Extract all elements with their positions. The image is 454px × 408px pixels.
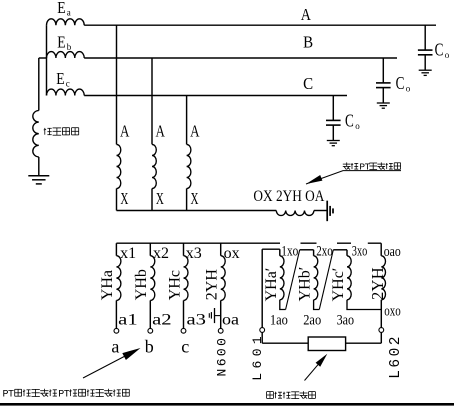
svg-text:X: X	[120, 189, 128, 208]
svg-text:2ao: 2ao	[303, 313, 321, 329]
svg-text:X: X	[156, 189, 164, 208]
wire phase C	[84, 95, 347, 97]
source Eb winding	[47, 52, 85, 58]
wire tap B	[151, 58, 153, 144]
wire winding 1 to X bus	[116, 189, 118, 211]
svg-text:oao: oao	[384, 244, 401, 260]
svg-text:c: c	[66, 79, 70, 89]
svg-text:C: C	[345, 111, 354, 131]
wire winding 2 to X bus	[151, 189, 153, 211]
svg-text:YHc′: YHc′	[330, 268, 347, 302]
wire bottom bus right	[346, 342, 382, 344]
svg-text:E: E	[56, 69, 64, 88]
svg-text:a3: a3	[187, 311, 207, 328]
svg-text:3xo: 3xo	[352, 244, 368, 260]
svg-text:N600: N600	[214, 336, 229, 377]
annotation harmonic device text	[267, 391, 274, 393]
svg-text:YHa′: YHa′	[263, 268, 280, 302]
PT primary winding 1	[117, 144, 121, 188]
wire stub secondary winding 2YH	[220, 243, 222, 256]
wire L601 below circle	[261, 332, 263, 343]
svg-text:PT: PT	[3, 390, 15, 401]
svg-text:YHc: YHc	[166, 270, 183, 300]
svg-text:C: C	[303, 74, 313, 93]
wire to arc-suppression coil	[38, 58, 40, 111]
label 1xo	[280, 240, 301, 256]
svg-text:OX 2YH OA: OX 2YH OA	[253, 188, 325, 205]
winding YHc'	[346, 250, 348, 256]
svg-text:ox: ox	[224, 245, 240, 262]
label 2xo	[317, 240, 338, 256]
PT primary winding 3	[187, 144, 191, 188]
svg-text:A: A	[301, 5, 312, 24]
wire 2YH bottom	[380, 300, 382, 328]
wire phase A	[84, 24, 436, 26]
svg-text:a: a	[111, 337, 119, 357]
source Ea winding	[47, 19, 85, 25]
svg-text:o: o	[355, 121, 360, 131]
wire YHa to terminal	[115, 300, 117, 328]
svg-text:a1: a1	[118, 311, 138, 328]
annotation leader zero-seq	[306, 171, 401, 184]
svg-text:PT: PT	[58, 390, 70, 401]
bottom border	[0, 403, 454, 406]
wire bus corner to oao	[380, 243, 382, 256]
svg-text:C: C	[396, 73, 405, 93]
svg-text:o: o	[406, 84, 411, 94]
svg-text:YHb′: YHb′	[297, 267, 314, 302]
svg-text:A: A	[120, 122, 129, 141]
resistor harmonic suppressor	[308, 337, 345, 351]
svg-text:1ao: 1ao	[270, 313, 288, 329]
svg-text:o: o	[445, 50, 450, 60]
svg-text:E: E	[57, 0, 65, 17]
svg-text:oxo: oxo	[384, 304, 401, 320]
wire diagonal 1ao to 2xo	[286, 250, 300, 310]
junction circle L601	[260, 328, 265, 333]
svg-text:C: C	[435, 40, 444, 60]
secondary winding YHa	[116, 256, 121, 301]
wire below circle L602	[380, 332, 382, 343]
svg-text:x2: x2	[153, 245, 169, 262]
terminal circle a2	[148, 328, 153, 333]
wire tap C	[186, 96, 188, 145]
wire 2YH to ground	[314, 210, 327, 212]
wire bottom bus left	[262, 342, 308, 344]
wire stub 3xo	[333, 249, 347, 251]
wire stub secondary winding YHb	[149, 243, 151, 256]
wire YHb to terminal	[149, 300, 151, 328]
wire YHc' bottom to oxo	[347, 300, 381, 310]
svg-text:YHa: YHa	[99, 270, 116, 300]
svg-text:b: b	[67, 42, 72, 52]
wire diagonal 2ao to 3xo	[319, 250, 333, 310]
label 3xo	[351, 240, 368, 256]
svg-text:E: E	[57, 33, 65, 52]
svg-text:L602: L602	[388, 334, 404, 379]
secondary winding YHc	[184, 256, 189, 301]
svg-text:c: c	[181, 337, 189, 357]
wire X bus primary	[117, 210, 277, 212]
svg-text:A: A	[156, 122, 165, 141]
capacitor C0 phase A	[424, 25, 426, 50]
PT primary winding 2	[152, 144, 156, 188]
svg-text:a: a	[67, 8, 71, 18]
svg-text:2YH: 2YH	[368, 267, 387, 300]
svg-text:a2: a2	[152, 311, 172, 328]
winding YHb'	[313, 250, 315, 256]
ground at oa terminal	[215, 315, 221, 317]
winding YHa'	[279, 249, 281, 256]
svg-text:b: b	[145, 337, 154, 357]
wire stub 1xo	[262, 248, 280, 250]
annotation zero-seq PT label	[343, 163, 351, 165]
arc suppression coil	[33, 111, 39, 157]
wire neutral vertical	[46, 25, 48, 95]
svg-text:2YH: 2YH	[204, 269, 221, 301]
svg-text:YHb: YHb	[133, 269, 150, 300]
svg-text:3ao: 3ao	[337, 313, 355, 329]
svg-text:L601: L601	[250, 332, 265, 381]
svg-text:B: B	[303, 33, 313, 52]
annotation leader harmonic device	[305, 356, 326, 380]
capacitor C0 phase C	[332, 96, 334, 121]
zero-seq PT high-voltage winding 2YH	[276, 211, 314, 216]
wire winding 3 to X bus	[186, 189, 188, 211]
wire YHb' bottom corner	[314, 300, 320, 310]
svg-text:2xo: 2xo	[316, 244, 333, 260]
wire coil to ground	[38, 157, 40, 176]
svg-text:x1: x1	[120, 245, 136, 262]
capacitor C0 phase B	[382, 58, 384, 83]
wire L601 vertical	[261, 249, 263, 328]
wire phase B	[84, 57, 397, 59]
winding 2YH secondary	[381, 256, 385, 300]
wire YHc to terminal	[183, 300, 185, 328]
wire secondary bus	[116, 242, 381, 244]
wire tap A	[116, 25, 118, 144]
wire stub secondary winding YHc	[183, 243, 185, 256]
ground arc coil	[28, 175, 49, 177]
junction circle L602	[379, 328, 384, 333]
wire YHa' bottom corner	[280, 300, 286, 310]
secondary winding YHb	[150, 256, 155, 301]
wire 2YH to terminal	[220, 300, 222, 328]
terminal circle oa	[218, 328, 223, 333]
svg-text:A: A	[190, 122, 199, 141]
ground right rotated	[326, 201, 328, 222]
label arc suppression coil text	[44, 128, 46, 135]
secondary winding 2YH	[221, 256, 226, 301]
wire neutral jog	[39, 57, 47, 59]
source Ec winding	[47, 89, 85, 95]
terminal circle a3	[181, 328, 186, 333]
wire stub 2xo	[300, 249, 314, 251]
svg-text:oa: oa	[222, 311, 239, 328]
svg-text:1xo: 1xo	[281, 243, 298, 259]
wire stub secondary winding YHa	[115, 243, 117, 256]
annotation leader parallel operation	[83, 350, 137, 378]
terminal circle a1	[114, 328, 119, 333]
svg-text:X: X	[191, 189, 199, 208]
